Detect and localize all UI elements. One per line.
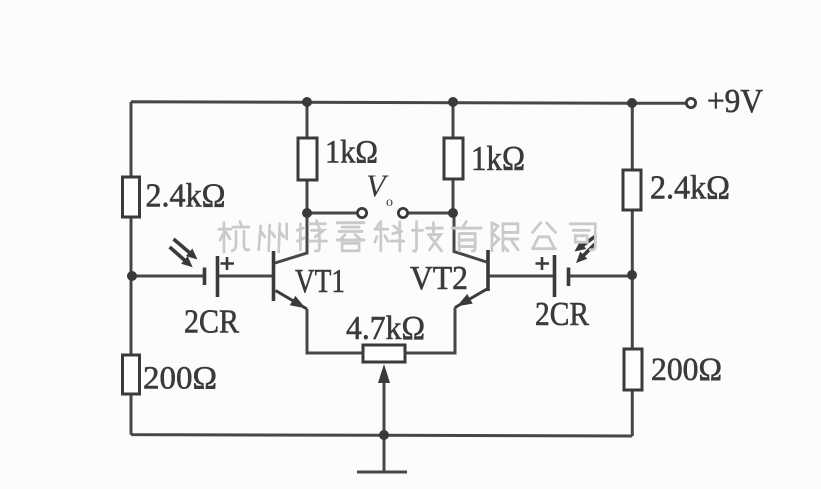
svg-text:4.7kΩ: 4.7kΩ	[346, 310, 425, 347]
svg-text:o: o	[386, 195, 393, 210]
svg-text:2CR: 2CR	[184, 303, 239, 340]
svg-text:2CR: 2CR	[535, 296, 589, 333]
svg-text:2.4kΩ: 2.4kΩ	[146, 178, 226, 215]
svg-text:200Ω: 200Ω	[651, 352, 722, 388]
svg-text:VT2: VT2	[410, 260, 468, 297]
svg-text:1kΩ: 1kΩ	[471, 139, 525, 178]
svg-text:VT1: VT1	[295, 263, 345, 300]
svg-text:+9V: +9V	[707, 83, 763, 120]
svg-text:2.4kΩ: 2.4kΩ	[650, 170, 730, 207]
svg-text:200Ω: 200Ω	[143, 361, 217, 397]
svg-text:1kΩ: 1kΩ	[325, 135, 378, 171]
